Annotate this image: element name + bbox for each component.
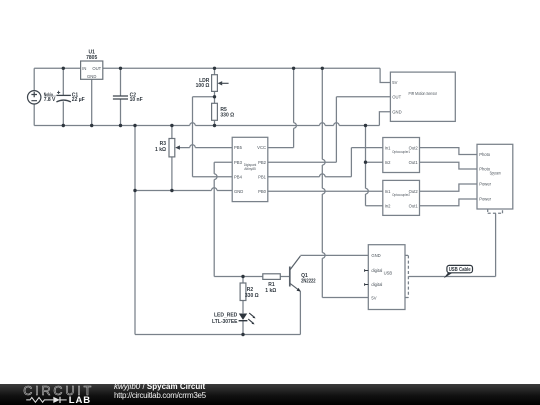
svg-text:digital: digital (371, 268, 382, 273)
svg-text:IN: IN (82, 66, 86, 71)
wire Opto2 Out1 to Power2 (420, 199, 478, 206)
svg-text:VCC: VCC (257, 145, 266, 150)
svg-text:PB3: PB3 (234, 160, 243, 165)
wire VCC riser (268, 68, 294, 147)
IC USB (368, 245, 405, 310)
svg-text:330 Ω: 330 Ω (245, 293, 259, 299)
wire emitter drop (299, 291, 301, 334)
IC PIR Motion Sensor (390, 72, 455, 121)
wire ground rail (34, 125, 379, 127)
svg-text:Attiny85: Attiny85 (244, 166, 256, 171)
svg-text:Power: Power (479, 197, 491, 202)
svg-text:LAB: LAB (69, 395, 91, 405)
wire PIR 5V lead (380, 68, 390, 82)
svg-text:5V: 5V (371, 295, 376, 300)
svg-text:PB2: PB2 (258, 160, 267, 165)
label flag USB Cable (444, 273, 453, 279)
svg-text:Spycam: Spycam (490, 170, 502, 175)
wire PB1 to Opto1 In1 (268, 148, 383, 177)
hop arcs (190, 123, 196, 126)
wire top rail right (5V) (103, 67, 380, 69)
IC Optocoupler2 (383, 180, 420, 215)
wire R1 to base (280, 276, 289, 278)
wire R3 bottom lead (171, 157, 173, 191)
svg-text:Optocoupler2: Optocoupler2 (392, 192, 411, 197)
wire PB2 to PIR OUT (268, 97, 391, 162)
regulator U1 7805 (81, 61, 103, 79)
IC Digispark Attiny85 (232, 137, 268, 201)
wire PB3 to R1 (214, 162, 263, 276)
footer bar (0, 384, 540, 405)
wire U1 GND lead (91, 79, 93, 125)
Spycam bottom connector (dashed) (488, 209, 503, 213)
capacitor C1 (56, 91, 71, 102)
svg-text:In2: In2 (385, 204, 391, 209)
capacitor C2 (113, 96, 128, 99)
svg-text:GND: GND (87, 74, 96, 79)
svg-text:Out1: Out1 (409, 204, 419, 209)
svg-text:1 kΩ: 1 kΩ (265, 288, 276, 294)
IC Optocoupler1 (383, 138, 420, 173)
USB digital pin stubs (365, 269, 369, 285)
wire PIR GND lead (379, 112, 390, 126)
wire LDR top lead (214, 68, 216, 74)
svg-text:PB1: PB1 (258, 174, 267, 179)
resistor R1 1k (263, 274, 281, 280)
svg-text:In1: In1 (385, 145, 391, 150)
wire source top (33, 68, 35, 90)
wire LDR to R5 (214, 91, 216, 103)
svg-text:USB: USB (384, 271, 393, 276)
wire R2 leads (242, 277, 244, 335)
svg-text:GND: GND (234, 189, 243, 194)
svg-text:LTL-307EE: LTL-307EE (212, 319, 238, 325)
wire bottom rail (135, 334, 300, 336)
wire divider junction to PB4 (193, 97, 233, 177)
svg-text:1 kΩ: 1 kΩ (155, 147, 166, 153)
svg-text:10 nF: 10 nF (130, 97, 143, 103)
svg-text:OUT: OUT (392, 95, 401, 100)
wire gnd rail row190 (135, 190, 232, 192)
svg-text:Optocoupler1: Optocoupler1 (392, 149, 411, 154)
svg-text:2N2222: 2N2222 (301, 278, 316, 284)
wire Opto2 Out2 to Power1 (420, 184, 478, 191)
resistor R2 330 (240, 283, 246, 301)
wire source bottom (33, 104, 35, 126)
USB right connector (dashed) (405, 255, 408, 297)
wire C1 leads (62, 68, 64, 125)
svg-text:5V: 5V (392, 80, 397, 85)
svg-text:GND: GND (392, 110, 401, 115)
svg-text:7.8 V: 7.8 V (44, 97, 56, 103)
svg-text:In1: In1 (385, 189, 391, 194)
svg-text:In2: In2 (385, 160, 391, 165)
svg-text:USB Cable: USB Cable (449, 267, 471, 273)
potentiometer R3 1k (169, 139, 175, 157)
svg-text:PIR Motion Sensor: PIR Motion Sensor (409, 91, 438, 96)
source V1 Nokia 7.8V (28, 91, 41, 104)
LED LED_RED LTL-307EE (239, 313, 256, 324)
wire Opto1 Out1 to Photo2 (420, 162, 478, 169)
wire top rail left (7.8V) (34, 67, 80, 69)
wire In2 ground drop (366, 126, 383, 206)
wire Opto1 Out2 to Photo1 (420, 148, 478, 155)
IC Spycam (477, 144, 513, 209)
svg-text:100 Ω: 100 Ω (196, 83, 210, 89)
transistor Q1 2N2222 (290, 256, 301, 291)
wire C2 leads (120, 68, 122, 125)
svg-text:PB4: PB4 (234, 174, 243, 179)
wire R5 bottom lead (214, 120, 216, 125)
wire 5V drop to USB (322, 68, 368, 297)
svg-text:Out1: Out1 (409, 160, 419, 165)
svg-text:330 Ω: 330 Ω (220, 112, 234, 118)
resistor R5 330 (212, 103, 218, 120)
svg-text:Power: Power (479, 182, 491, 187)
svg-text:PB5: PB5 (234, 145, 243, 150)
CircuitLab logo (0, 384, 110, 405)
svg-text:PB0: PB0 (258, 189, 267, 194)
svg-text:22 µF: 22 µF (72, 97, 85, 103)
wire left ground drop (134, 126, 136, 335)
wire USB cable (408, 213, 495, 276)
svg-text:LED_RED: LED_RED (214, 313, 238, 319)
svg-text:Photo: Photo (479, 152, 491, 157)
wire collector to USB GND (300, 254, 368, 256)
wire PB0 to Opto2 In1 (268, 190, 383, 192)
svg-text:digital: digital (371, 282, 382, 287)
svg-text:7805: 7805 (86, 55, 97, 61)
wire R3 top lead (171, 126, 173, 139)
svg-text:GND: GND (371, 253, 380, 258)
resistor LDR 100 (212, 75, 218, 92)
wire R3 wiper to PB5 (179, 147, 232, 149)
svg-text:OUT: OUT (92, 66, 101, 71)
